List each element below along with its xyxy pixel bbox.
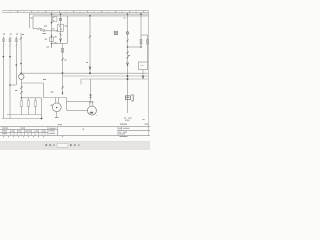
node col2 b (9, 84, 11, 86)
meter P1 circle (19, 74, 24, 79)
supply node at x141 (140, 13, 142, 15)
wire corner x33 (32, 16, 34, 29)
resistor R2 (27, 101, 29, 107)
long wire h79 (81, 78, 148, 80)
left column wire 2 (9, 37, 11, 119)
node x90 on h73 (89, 72, 91, 74)
title block top line (0, 126, 150, 128)
M1 top lead b (58, 98, 60, 104)
wire drop x141 (140, 14, 142, 35)
fuse F3 (147, 40, 149, 45)
fuse symbol col2 (9, 39, 11, 42)
junction dot h47 right (140, 46, 142, 48)
title block row line left (0, 129, 58, 131)
wire drop x67.5 from bus (67, 16, 69, 44)
K2 bottom arrow (142, 76, 144, 79)
M1 center mark (56, 107, 58, 109)
fuse mark on x62.5 (61, 49, 63, 53)
wire jog 2 (45, 30, 58, 32)
left small column dividers (11, 127, 46, 136)
node col4 on h73 (20, 72, 22, 74)
wire lower M1 to M2 (67, 109, 88, 111)
Y1 side bracket (131, 95, 133, 101)
M2 top lead b (92, 101, 94, 106)
device box B1 (58, 24, 64, 31)
B1 inner specks (59, 26, 60, 27)
tick a x126.5 (126, 40, 128, 42)
M2 top lead a (89, 101, 91, 106)
wire h83 (21, 82, 43, 84)
motor M2 (87, 106, 96, 115)
key switch S1 wire x51.5 (51, 14, 53, 48)
fuse F2 (140, 40, 142, 45)
bus junction dot x127.5 (127, 13, 129, 15)
plug contact circle b (43, 30, 45, 32)
bottom edge microtext row (3, 136, 63, 137)
status bar nav glyph last-page (74, 144, 76, 146)
stub down from h79 (80, 79, 82, 85)
switch marks below meter (20, 86, 23, 88)
node col1 (3, 56, 5, 58)
switch stroke on jog1 (38, 28, 40, 30)
drop to bottom bus (41, 98, 43, 119)
status bar nav glyph mark (53, 144, 55, 146)
relay box K2 (139, 62, 148, 70)
viewer status bar (0, 142, 150, 150)
M1 ground stub (56, 112, 58, 118)
node col4 (20, 63, 22, 65)
F3 wire (147, 35, 149, 62)
pump motor wire x90.5 (90, 79, 92, 101)
contact marks under B1 (60, 34, 62, 36)
horn Y1 box (125, 96, 130, 100)
fuse F1 wire x60.5 (60, 14, 62, 43)
bus line L2 (33, 15, 148, 17)
node above motor (62, 92, 64, 94)
link col3 to col2 (10, 84, 16, 86)
main drop wire x62.5 (62, 44, 64, 96)
bus line L+ (30, 13, 149, 15)
divider x118 (117, 127, 119, 136)
left column wire 3 (15, 37, 17, 86)
K1 lower stub (51, 44, 53, 48)
column wire 4 (to meter) (20, 33, 22, 74)
wire jog 1 (33, 28, 38, 30)
right frame border (147, 10, 149, 135)
meter lower wire (20, 79, 22, 97)
title block text marks (2, 124, 149, 137)
wire tick on jog2 (56, 30, 58, 32)
divider x48 (47, 127, 49, 136)
divider x57.5 (57, 127, 59, 136)
resistor footer wire (7, 114, 42, 116)
R1 bottom stub (21, 106, 23, 114)
resistor R1 (20, 101, 22, 107)
label box H1 (114, 31, 117, 34)
relay wire x127.5 (127, 14, 129, 113)
sheet top ruler line 1 (2, 9, 149, 11)
status bar nav glyph zoom (78, 144, 80, 146)
terminal circle on F1 wire (59, 18, 61, 20)
title block right row line (118, 129, 150, 131)
node on S1 wire (51, 22, 53, 24)
bus junction dot x90 (89, 15, 91, 17)
sheet top ruler line 2 (2, 12, 149, 14)
F2 wire (140, 35, 142, 47)
junction x126.5 on h79 (127, 78, 129, 80)
arrow x126.5 (127, 63, 129, 66)
status bar nav glyph first-page (45, 144, 47, 146)
wire h43 (52, 43, 68, 45)
M1 right wire down (66, 98, 68, 111)
wire from h83 down (44, 83, 67, 98)
junction x126.5 on h76 (127, 75, 129, 77)
S1 box terminal dots (53, 17, 54, 18)
node col3 (15, 64, 17, 66)
node below meter (21, 97, 23, 99)
long wire h76 (63, 75, 149, 77)
node bottom bus (41, 118, 43, 120)
M2 commutator blob (90, 112, 94, 114)
contact tick col1 (3, 45, 5, 47)
M1 ground bar (55, 116, 59, 118)
status bar page field (57, 144, 68, 148)
R3 bottom stub (35, 106, 37, 114)
tiny text noise specks (3, 18, 145, 121)
contact marks above motor (61, 86, 64, 88)
M2 tick (97, 115, 98, 116)
contact tick col2 (9, 45, 11, 47)
link wire h47 (128, 46, 142, 48)
K2 inner mark (140, 65, 143, 67)
drop wire x90 from bus (89, 16, 91, 73)
resistor header wire (22, 97, 42, 99)
motor M1 (52, 103, 61, 112)
junction dot h47 left (127, 46, 129, 48)
H1 inner marks (114, 32, 116, 34)
contact tick col3 (15, 45, 17, 47)
wire drop at column 29.5 (29, 13, 31, 28)
branch header (141, 34, 148, 36)
R3 top stub (35, 98, 37, 101)
R2 bottom stub (28, 106, 30, 114)
bus junction dot x51.5 (51, 13, 53, 15)
node col2 a (9, 56, 11, 58)
M1 top lead a (54, 98, 56, 104)
status bar top edge (0, 141, 150, 143)
status bar nav glyph prev-page (49, 144, 51, 146)
K2 drop wire (142, 70, 144, 79)
wire upper M1 to M2 (67, 100, 93, 102)
divider x121.5 (121, 127, 123, 131)
plug contact circle a (40, 29, 42, 31)
M1 brush tick (50, 104, 52, 106)
tick c x127.5 (126, 57, 128, 59)
tick on x90 (89, 36, 91, 38)
bottom bus wire (2, 118, 42, 120)
ruler cell number specks (17, 11, 144, 12)
arrow on x90 (89, 67, 91, 70)
diode marks on x90.5 (89, 95, 91, 98)
coil K1 (50, 37, 54, 41)
title block bottom line (0, 134, 150, 136)
arrow down on x60.5 (60, 39, 62, 42)
terminal circle x126.5 (126, 32, 129, 35)
tick b x126.5 (126, 52, 128, 54)
fuse symbol col3 (15, 39, 17, 42)
status bar nav glyph next-page (70, 144, 72, 146)
title block row line left 2 (0, 131, 48, 133)
node under K1 (51, 43, 53, 45)
contact tick on x62.5 (61, 58, 64, 60)
connector box right of S1 (53, 17, 57, 22)
long wire h73 (21, 72, 148, 74)
title block (0, 127, 150, 136)
ruler column ticks (10, 10, 136, 12)
Y1 inner dash (126, 97, 129, 99)
junction dot on h73 (62, 72, 64, 74)
left column wire 1 (2, 37, 4, 119)
tick on col4 (20, 38, 22, 40)
resistor R3 (34, 101, 36, 107)
fuse symbol col1 (3, 39, 5, 42)
R2 top stub (28, 98, 30, 101)
R1 top stub (21, 98, 23, 101)
node at jog2 crossing (51, 35, 53, 37)
M2 lead tick (89, 102, 94, 104)
bus junction dot x60.5 (60, 13, 62, 15)
